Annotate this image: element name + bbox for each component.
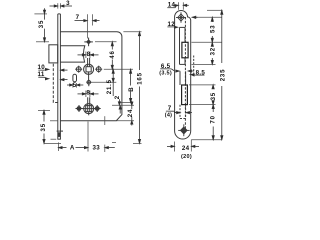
leader 12 right arrow: [192, 16, 197, 18]
tick 5 right: [76, 83, 78, 88]
dashed line B: [53, 64, 57, 103]
tick 8 upper right: [89, 52, 91, 59]
tick A right axis: [87, 122, 89, 152]
ext small circle: [91, 81, 116, 83]
svg-text:46: 46: [109, 50, 116, 58]
strike plate outline: [175, 10, 191, 139]
svg-text:7: 7: [168, 105, 172, 112]
svg-text:12: 12: [168, 21, 176, 28]
leader 8.5: [190, 74, 204, 76]
svg-text:8.5: 8.5: [196, 69, 206, 76]
dimension arrows left drawing: [38, 5, 140, 149]
dim 8 upper: [78, 54, 99, 56]
tick 8 lower left: [85, 91, 87, 98]
dim 165: [138, 32, 140, 144]
ext case top right: [123, 31, 141, 33]
bold window latch: [182, 85, 188, 105]
bold window deadbolt: [182, 42, 188, 58]
svg-text:A: A: [70, 144, 75, 151]
svg-text:32: 32: [209, 47, 216, 55]
ext follower axis: [104, 68, 133, 70]
svg-text:(4): (4): [165, 112, 173, 118]
dim 24(20) arrows: [167, 145, 199, 147]
svg-text:6.5: 6.5: [161, 63, 171, 70]
dim 14: [167, 4, 189, 7]
dim 6.5 arrows: [160, 69, 194, 72]
svg-text:165: 165: [137, 72, 144, 85]
dim 35 right: [212, 85, 214, 105]
dim 235: [221, 10, 223, 139]
right drawing dims: [160, 4, 223, 147]
right screw hole: [95, 66, 102, 73]
ext B level: [120, 102, 133, 104]
cyl right screw hole: [94, 105, 101, 112]
ext plate top: [34, 13, 47, 15]
leader 7(4): [166, 111, 192, 114]
slot upper: [180, 27, 186, 64]
ext plate bottom left: [44, 143, 61, 145]
tick 7 left: [86, 14, 88, 38]
ext case bottom left: [50, 120, 57, 122]
svg-text:11: 11: [38, 71, 45, 78]
svg-text:8: 8: [87, 51, 91, 58]
dim 33: [105, 147, 115, 149]
slot hole: [73, 74, 77, 82]
dim 2: [118, 99, 121, 113]
dim 10 leader: [38, 68, 67, 71]
bend dashed line: [184, 17, 186, 133]
ext win2 bottom: [189, 104, 216, 106]
svg-text:35: 35: [40, 123, 47, 131]
slot lower dashes: [180, 105, 186, 119]
cylinder hole: [82, 97, 95, 115]
svg-text:B: B: [128, 87, 135, 92]
tick 14 left: [177, 2, 179, 9]
svg-text:24: 24: [182, 145, 190, 152]
dim 35 top: [43, 8, 45, 42]
svg-text:33: 33: [92, 145, 100, 152]
ext case bottom: [117, 120, 135, 122]
svg-text:3: 3: [66, 0, 70, 7]
dim 53: [211, 17, 213, 42]
dim 7: [75, 20, 100, 22]
svg-text:5: 5: [73, 82, 77, 89]
ext 2-24 level: [112, 104, 134, 106]
dim 21.5: [112, 69, 114, 96]
tick 5 left: [72, 83, 74, 88]
svg-text:7: 7: [76, 14, 80, 21]
cyl left screw hole: [76, 105, 83, 112]
svg-text:35: 35: [210, 92, 217, 100]
tick 7 right: [92, 14, 94, 25]
hidden line right of lip: [193, 56, 195, 75]
svg-text:2: 2: [114, 95, 121, 99]
ext slot bottom: [192, 63, 216, 65]
dim 35 bottom: [43, 110, 45, 143]
ext 35-bottom top ref: [38, 109, 50, 111]
latch bolt head: [49, 45, 58, 63]
faceplate: [57, 14, 60, 139]
leader 12: [167, 26, 177, 28]
tick 3 left: [57, 3, 59, 8]
ext plate top: [207, 9, 223, 11]
plate screw hole side view: [57, 130, 63, 132]
dim B: [130, 69, 132, 102]
tick 24 left: [174, 142, 176, 152]
ext 165 bottom mid: [112, 142, 116, 144]
top screw hole diamond: [176, 12, 186, 23]
tick 8 lower right: [89, 91, 91, 98]
svg-text:24: 24: [127, 109, 134, 117]
small circle below follower: [86, 80, 91, 86]
dim 32: [211, 42, 213, 64]
latch bolt body: [60, 46, 84, 62]
dim 24 right: [131, 101, 133, 126]
dim 5: [67, 84, 83, 86]
dim 70: [212, 105, 214, 140]
follower hub: [84, 58, 94, 80]
ext win1 top: [192, 41, 222, 43]
svg-text:21.5: 21.5: [106, 79, 113, 94]
ext crosshair level: [36, 41, 49, 43]
slot mid dashes: [180, 71, 186, 85]
dim 11 leader: [38, 77, 67, 81]
svg-text:53: 53: [209, 25, 216, 33]
ext hole level: [192, 16, 222, 18]
svg-text:14: 14: [168, 2, 176, 9]
svg-text:10: 10: [38, 64, 46, 71]
tick 33 right: [104, 145, 106, 152]
svg-text:235: 235: [219, 69, 226, 82]
svg-text:35: 35: [38, 20, 45, 28]
dim 3: [50, 5, 73, 7]
ext plate bottom right: [133, 142, 142, 144]
dim 8 lower: [78, 93, 99, 95]
left screw hole: [75, 66, 82, 73]
tick 24 right: [190, 140, 192, 152]
svg-text:(20): (20): [181, 154, 192, 160]
svg-text:(3.5): (3.5): [159, 70, 172, 76]
right drawing extension lines: [175, 2, 223, 151]
fixing hole crosshair: [84, 38, 93, 47]
tick 3 right: [59, 3, 61, 8]
tick A left: [57, 142, 59, 151]
tick 8 upper left: [85, 52, 87, 59]
svg-text:70: 70: [210, 115, 217, 123]
svg-text:8: 8: [86, 90, 90, 97]
dim A: [59, 147, 89, 149]
tick 14 right: [182, 2, 184, 9]
bottom screw hole: [178, 124, 189, 136]
ext plate bottom: [191, 139, 222, 141]
dim 46: [111, 42, 113, 70]
lock case: [60, 32, 122, 121]
ext win2 top: [189, 84, 216, 86]
